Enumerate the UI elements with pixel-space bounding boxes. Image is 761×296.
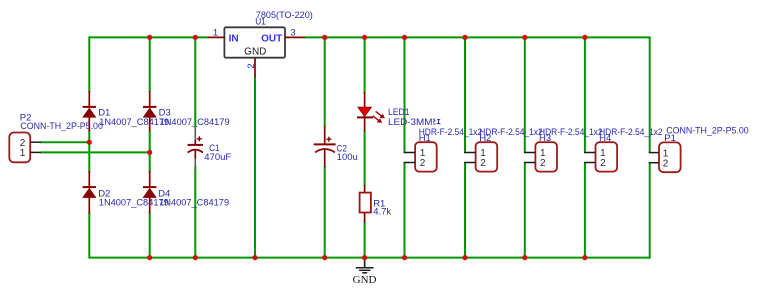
wire bottom rail: [89, 257, 649, 259]
node junction top C2 x149.7: [147, 35, 152, 40]
R1 reference label: [373, 198, 385, 209]
svg-text:IN: IN: [229, 33, 239, 44]
H4 reference label: [599, 133, 611, 144]
wire P2 pin1 to node: [40, 151, 151, 153]
header H2: [476, 142, 498, 171]
wire vertical H2 column: [464, 36, 466, 258]
P1 pin 2 stub: [649, 162, 659, 164]
svg-text:CONN-TH_2P-P5.00: CONN-TH_2P-P5.00: [666, 126, 749, 137]
node junction bottom C1: [193, 255, 198, 260]
D4 reference label: [158, 189, 170, 200]
svg-text:U1: U1: [255, 16, 266, 27]
node junction bottom GND: [362, 255, 367, 260]
svg-text:2: 2: [246, 63, 257, 68]
P2 pin 1 stub: [30, 151, 41, 153]
wire vertical D1/D2 column: [88, 36, 90, 258]
capacitor C1: [188, 126, 203, 167]
svg-text:H2: H2: [479, 133, 491, 144]
C1 reference label: [209, 143, 220, 154]
svg-text:2: 2: [600, 158, 606, 169]
diode D3: [143, 91, 156, 132]
U1 reference label: [255, 16, 266, 27]
U1 pin 2 stub: [254, 58, 256, 78]
LED1 emission arrows: [373, 111, 385, 123]
wire vertical H4 column: [584, 36, 586, 258]
node junction top H2: [462, 35, 467, 40]
wire P2 pin2 to node: [40, 141, 91, 143]
P2 reference label: [20, 112, 32, 123]
node junction bottom H4: [582, 255, 587, 260]
H1 reference label: [419, 133, 431, 144]
node junction bottom H2: [462, 255, 467, 260]
header H1: [415, 142, 437, 171]
node junction top LED1: [362, 35, 367, 40]
H1 pin 2 stub: [404, 162, 416, 164]
svg-text:2: 2: [663, 158, 669, 169]
svg-text:2: 2: [420, 158, 426, 169]
H4 pin 2 stub: [584, 162, 596, 164]
svg-text:GND: GND: [353, 274, 377, 286]
node junction top C1: [193, 35, 198, 40]
H1 pin 1 stub: [404, 152, 416, 154]
node junction bottom H3: [522, 255, 527, 260]
H3 reference label: [539, 133, 551, 144]
D2 reference label: [98, 189, 110, 200]
header H4: [596, 142, 618, 171]
node junction top H3: [522, 35, 527, 40]
C1 value label 470uF: [204, 152, 231, 163]
LED1 value label chinese glyph hong: [433, 118, 440, 124]
wire vertical C1 column: [194, 36, 196, 258]
H2 value label HDR-F-2.54_1x2: [479, 127, 543, 138]
U1 pin 1 stub: [208, 36, 225, 38]
svg-text:H3: H3: [539, 133, 551, 144]
D1 value label 1N4007_C84179: [99, 117, 169, 128]
connector P1: [659, 142, 681, 172]
diode D4: [143, 171, 156, 214]
U1 pin 3 number: [290, 27, 295, 38]
H2 reference label: [479, 133, 491, 144]
svg-text:3: 3: [290, 27, 295, 38]
H2 pin 2 stub: [464, 162, 476, 164]
connector P2: [9, 133, 30, 163]
ground symbol: [353, 258, 377, 286]
D4 value label 1N4007_C84179: [159, 198, 229, 209]
H3 value label HDR-F-2.54_1x2: [539, 127, 603, 138]
svg-text:100u: 100u: [337, 152, 358, 163]
C2 reference label: [336, 143, 347, 154]
U1 value label 7805(TO-220): [256, 10, 313, 21]
node junction P2 pin2 bridge: [87, 140, 92, 145]
U1 pin 1 number: [213, 27, 218, 38]
D1 reference label: [98, 108, 110, 119]
U1 pin 3 stub: [285, 36, 305, 38]
svg-text:4.7k: 4.7k: [373, 206, 391, 217]
svg-text:H1: H1: [419, 133, 431, 144]
svg-text:470uF: 470uF: [204, 152, 231, 163]
svg-text:2: 2: [480, 158, 486, 169]
header H3: [535, 142, 557, 171]
R1 value label 4.7k: [373, 206, 391, 217]
wire top rail right segment: [304, 36, 650, 38]
diode D1: [83, 91, 96, 132]
node junction bottom H1: [402, 255, 407, 260]
P2 pin 2 stub: [30, 141, 41, 143]
H1 value label HDR-F-2.54_1x2: [419, 127, 483, 138]
resistor R1: [360, 185, 371, 223]
svg-text:1: 1: [213, 27, 218, 38]
P2 value label CONN-TH_2P-P5.00: [20, 121, 103, 132]
svg-text:1: 1: [20, 148, 26, 159]
H3 pin 1 stub: [524, 152, 536, 154]
P1 reference label: [664, 133, 676, 144]
capacitor C2: [314, 126, 336, 167]
C2 value label 100u: [337, 152, 358, 163]
H2 pin 1 stub: [464, 152, 476, 154]
svg-text:CONN-TH_2P-P5.00: CONN-TH_2P-P5.00: [20, 121, 103, 132]
P1 value label CONN-TH_2P-P5.00: [666, 126, 749, 137]
wire top rail left segment: [89, 36, 209, 38]
wire vertical U1 GND pin column: [254, 77, 256, 259]
H3 pin 2 stub: [524, 162, 536, 164]
svg-text:2: 2: [540, 158, 546, 169]
svg-text:P1: P1: [664, 133, 676, 144]
svg-text:GND: GND: [244, 47, 266, 58]
op-amp U1 regulator 7805 body: [224, 27, 285, 57]
H4 pin 1 stub: [584, 152, 596, 154]
svg-text:OUT: OUT: [261, 33, 282, 44]
wire vertical H1 column: [404, 36, 406, 258]
LED1 reference label: [388, 107, 410, 118]
LED1 value label LED-3MM red: [388, 117, 433, 128]
D3 reference label: [159, 108, 171, 119]
node junction bottom D3/D4: [147, 255, 152, 260]
node junction bottom U1: [252, 255, 257, 260]
node junction top C2: [322, 35, 327, 40]
svg-text:1N4007_C84179: 1N4007_C84179: [159, 198, 229, 209]
D2 value label 1N4007_C84179: [99, 198, 169, 209]
node junction bottom C2: [322, 255, 327, 260]
node junction P2 pin1 bridge: [147, 150, 152, 155]
LED LED1: [357, 92, 373, 131]
P1 pin 1 stub: [649, 152, 659, 154]
wire vertical LED1/R1 column: [364, 36, 366, 258]
H4 value label HDR-F-2.54_1x2: [599, 127, 663, 138]
wire vertical D3/D4 column: [149, 36, 151, 258]
wire vertical H3 column: [524, 36, 526, 258]
U1 pin 2 number: [246, 63, 257, 68]
node junction top H1: [402, 35, 407, 40]
wire vertical P1 column: [649, 36, 651, 258]
D3 value label 1N4007_C84179: [160, 117, 230, 128]
node junction top H4: [582, 35, 587, 40]
wire vertical C2 column: [324, 36, 326, 258]
svg-text:H4: H4: [599, 133, 611, 144]
diode D2: [83, 171, 96, 214]
